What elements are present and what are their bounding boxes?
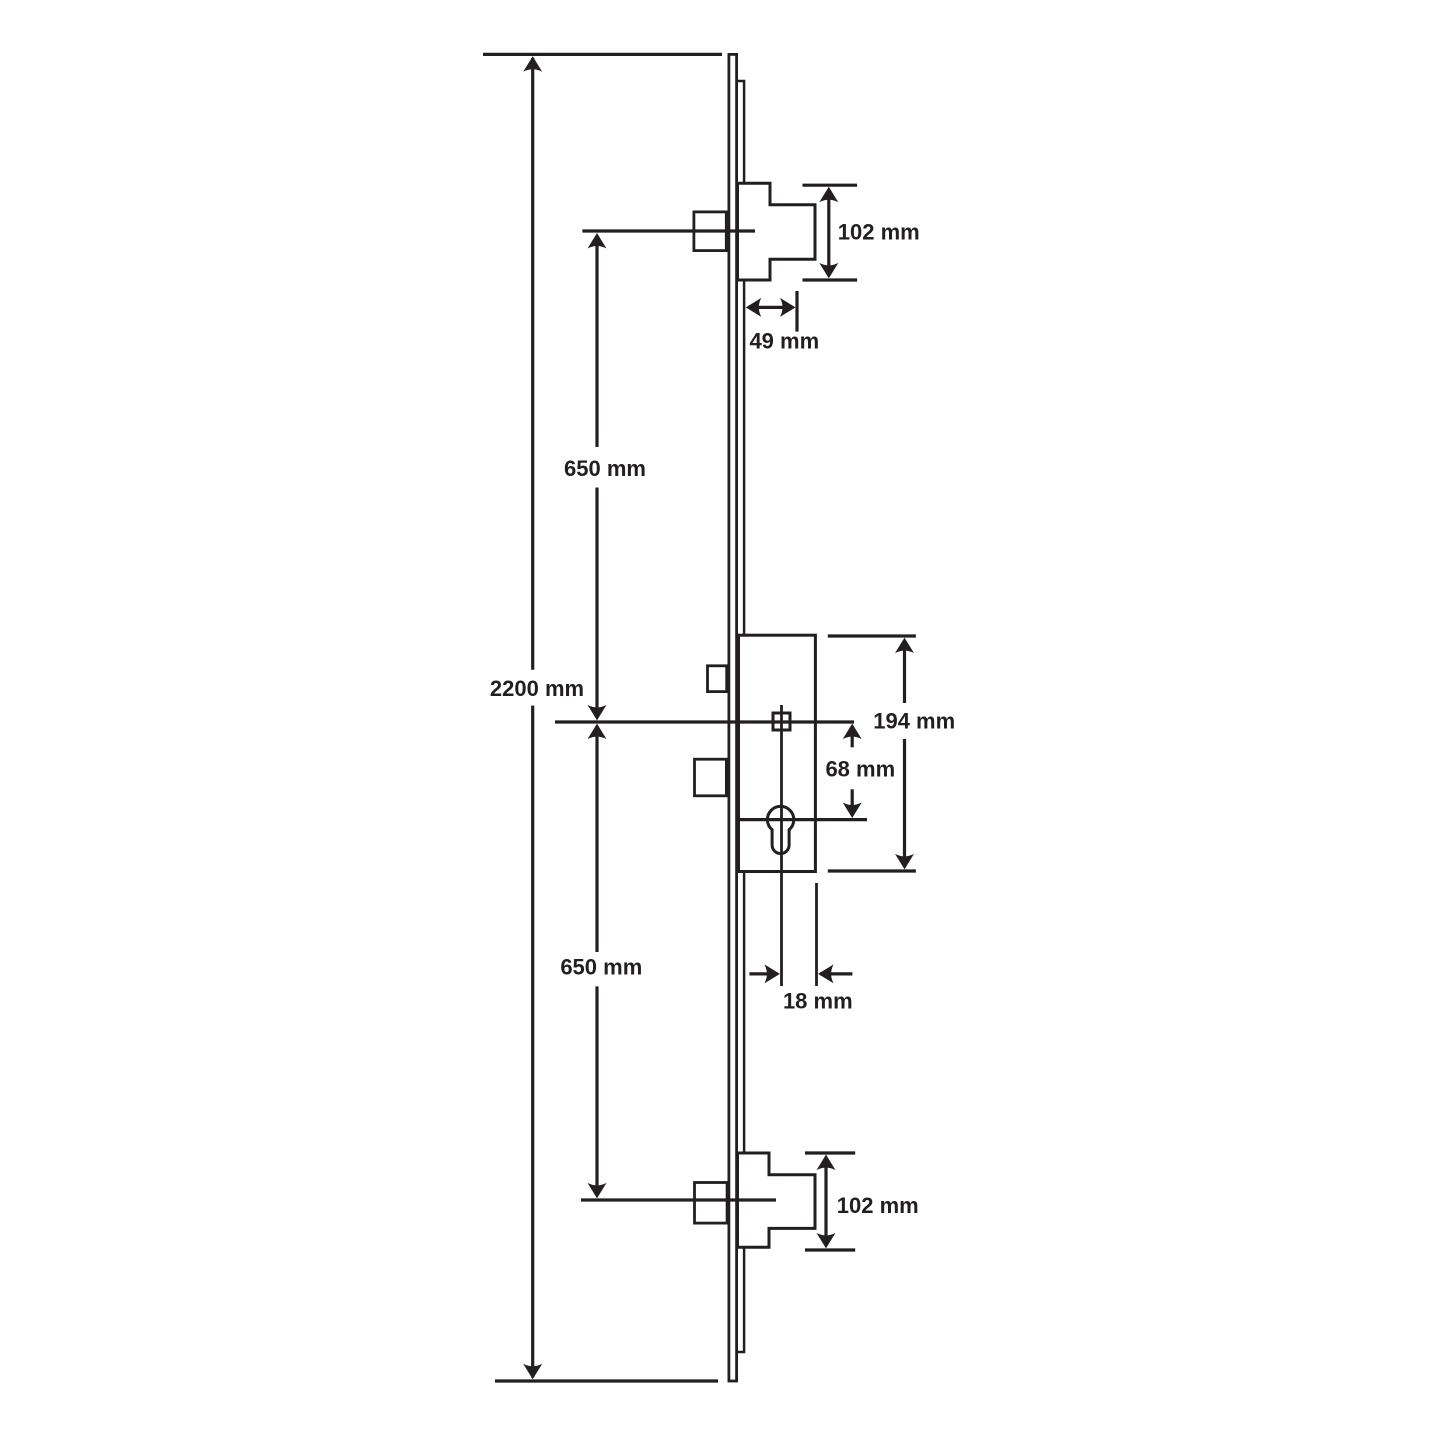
- dimension 68 mm line: [851, 727, 854, 814]
- dimension 102 mm upper arrowheads: [819, 187, 838, 279]
- dimension 18 mm right tick: [815, 883, 818, 986]
- dimension 49 mm arrow: [748, 306, 793, 309]
- bottom deadbolt body: [738, 1153, 816, 1247]
- dimension 194 mm ticks: [828, 636, 916, 871]
- svg-text:650 mm: 650 mm: [560, 954, 642, 979]
- deadbolt keeper: [695, 759, 727, 796]
- bottom bolt centre line: [581, 1198, 776, 1201]
- svg-text:2200 mm: 2200 mm: [490, 676, 584, 701]
- top edge reference line: [483, 53, 722, 56]
- bottom edge reference line: [495, 1379, 718, 1382]
- dimension 2200 mm arrowheads: [523, 56, 542, 1379]
- dimension 102 mm lower arrowheads: [817, 1155, 836, 1249]
- top deadbolt body: [738, 183, 816, 280]
- faceplate: [729, 54, 737, 1381]
- euro cylinder: [767, 806, 793, 853]
- svg-text:102 mm: 102 mm: [838, 220, 920, 245]
- dimension 68 mm arrowheads: [843, 724, 862, 818]
- middle centre line: [555, 720, 854, 723]
- svg-text:102 mm: 102 mm: [837, 1193, 919, 1218]
- svg-text:49 mm: 49 mm: [749, 328, 819, 353]
- latch keeper: [708, 666, 727, 692]
- bottom strike plate: [695, 1183, 728, 1224]
- dimension 650 mm upper line: [595, 236, 598, 718]
- svg-text:68 mm: 68 mm: [825, 756, 895, 781]
- central lock case: [739, 635, 816, 871]
- dimension 49 mm tick: [795, 291, 798, 332]
- dimension 194 mm arrowheads: [895, 638, 914, 870]
- spindle square: [773, 713, 790, 730]
- dimension 102 mm lower ticks: [805, 1153, 855, 1250]
- spindle centre line: [780, 705, 783, 986]
- svg-text:650 mm: 650 mm: [564, 456, 646, 481]
- top strike plate: [694, 212, 726, 251]
- svg-text:18 mm: 18 mm: [783, 989, 853, 1014]
- top bolt centre line: [582, 229, 755, 232]
- dimension 102 mm upper ticks: [803, 185, 858, 280]
- dimension 650 mm upper arrowheads: [588, 233, 607, 720]
- gearbox rail: [737, 81, 745, 1352]
- dimension 18 mm arrows: [749, 972, 852, 975]
- dimension 650 mm lower line: [595, 727, 598, 1196]
- dimension 650 mm lower arrowheads: [588, 724, 607, 1199]
- cylinder centre line: [739, 818, 868, 821]
- dimension 2200 mm line: [531, 58, 534, 1378]
- svg-text:194 mm: 194 mm: [873, 709, 955, 734]
